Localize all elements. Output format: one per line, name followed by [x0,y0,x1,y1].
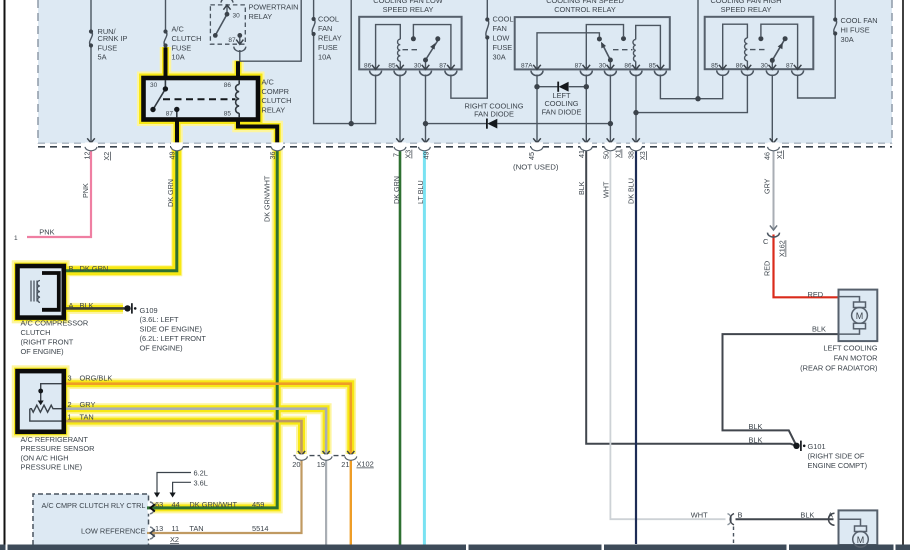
svg-text:CRNK IP: CRNK IP [98,34,128,43]
junction: left diode at control 87 riser [584,84,589,89]
svg-text:COOL: COOL [493,14,514,23]
svg-text:49: 49 [168,152,177,160]
svg-text:BLK: BLK [800,511,814,520]
wire: LS relay pin 87 to cool fan low fuse [451,38,487,99]
wire: powertrain 87 output down and branch right up [239,50,241,61]
thick wire: relay pin 85 output to border at 36 [238,118,277,145]
svg-text:OF ENGINE): OF ENGINE) [21,347,64,356]
highlight glow: relay outputs through border [171,120,183,151]
svg-text:WHT: WHT [691,511,708,520]
thick wire: fuse to A/C compr clutch relay pin 30 [164,48,168,79]
wire LT BLU 49 down to sheet edge [423,148,426,550]
wire: control relay pin 85 to high speed pin 85 [660,75,722,99]
svg-text:1: 1 [68,412,72,421]
svg-text:LOW REFERENCE: LOW REFERENCE [81,526,146,535]
svg-text:RED: RED [763,261,772,276]
svg-text:2: 2 [68,400,72,409]
svg-text:POWERTRAIN: POWERTRAIN [249,3,299,12]
svg-text:DK GRN: DK GRN [392,176,401,204]
svg-text:85: 85 [649,63,657,70]
ECM dashed box (A/C cmpr clutch rly ctrl) [33,494,149,545]
svg-text:BLK: BLK [749,422,763,431]
svg-text:PRESSURE LINE): PRESSURE LINE) [21,462,83,471]
junction: control 86 / high speed 86 link [633,110,638,115]
harness connector 7 X3 [394,142,406,150]
svg-text:63: 63 [155,500,163,509]
left cooling fan motor internals [839,297,868,335]
svg-text:RELAY: RELAY [318,33,342,42]
svg-text:85: 85 [711,63,719,70]
svg-text:X102: X102 [357,460,374,469]
powertrain relay contacts and pins [225,12,230,17]
svg-text:3.6L: 3.6L [194,478,208,487]
wire WHT 50 down and right to connector B [610,148,725,519]
pin numbers A/C compr clutch relay [150,82,231,118]
relay box: cooling fan low speed relay [359,17,461,70]
svg-text:COOL: COOL [318,14,339,23]
fuse A/C CLUTCH 10A [164,32,167,46]
wire DK BLU 38 down to sheet edge [635,148,637,544]
svg-text:TAN: TAN [189,524,203,533]
fuse COOL FAN HI 30A [834,20,837,34]
relay box: cooling fan high speed relay [705,17,814,69]
svg-text:13: 13 [155,524,163,533]
low speed relay internals [376,25,451,70]
svg-text:PNK: PNK [39,228,54,237]
harness connector 12 X2 [85,142,97,150]
svg-text:SPEED RELAY: SPEED RELAY [383,5,434,14]
svg-text:30: 30 [761,63,769,70]
svg-text:DK GRN/WHT: DK GRN/WHT [189,500,237,509]
svg-text:X3: X3 [404,150,413,159]
svg-text:86: 86 [224,82,232,89]
svg-text:OF ENGINE): OF ENGINE) [140,343,183,352]
highlight glow: A/C clutch fuse feed to relay [160,47,172,78]
svg-text:30: 30 [150,82,158,89]
highlight glow: clutch box [18,266,64,318]
X102 connector pin 21 cup [345,454,357,460]
svg-text:FAN MOTOR: FAN MOTOR [834,354,878,363]
svg-text:LEFT COOLING: LEFT COOLING [823,343,877,352]
svg-text:X1: X1 [775,150,784,159]
svg-text:LT BLU: LT BLU [416,180,425,204]
ground G109 [124,305,130,311]
svg-text:5A: 5A [98,53,107,62]
wire: powertrain relay pin30 arrow stem [226,6,228,15]
wire DK GRN 7 X3 down to sheet edge [399,148,402,550]
wire: LS relay pin 85 down to border (DK GRN 7) [399,75,401,143]
fuse RUN/CRNK IP 5A [90,32,93,46]
svg-text:M: M [856,311,864,321]
wire: cool fan low fuse feed [486,0,488,20]
X102 connector pin 19 cup [320,454,332,460]
connector labels at border [83,149,785,160]
svg-text:LOW: LOW [493,34,510,43]
connector A at right fan motor [829,513,835,525]
wire: high speed relay pin 30 down to border (GRY 46) [771,75,773,143]
wire: feed from top to rail junction [350,0,352,124]
svg-text:86: 86 [364,63,372,70]
svg-text:CONTROL RELAY: CONTROL RELAY [554,5,616,14]
svg-text:B: B [69,264,74,273]
wire GRY 46 to connector C X162 [773,148,775,229]
harness connector 38 X3 [630,142,642,150]
A/C compressor clutch bold box [18,266,64,318]
left cooling fan diode [559,82,569,92]
pin numbers low speed relay [364,63,447,70]
relay box: cooling fan speed control relay [515,17,670,69]
svg-text:87: 87 [228,37,236,44]
svg-text:FAN DIODE: FAN DIODE [474,110,514,119]
svg-text:30A: 30A [493,53,506,62]
wire BLK connector B to right fan motor connector A [736,518,834,520]
svg-text:(RIGHT SIDE OF: (RIGHT SIDE OF [808,452,865,461]
wire: control relay pin 87 down to border (BLK 41) [585,75,587,143]
wire GRY below X102 pin 19 [325,459,327,550]
svg-text:DK BLU: DK BLU [627,178,636,204]
svg-text:86: 86 [736,63,744,70]
svg-text:12: 12 [83,152,92,160]
svg-text:(3.6L: LEFT: (3.6L: LEFT [140,315,180,324]
thick wire: powertrain feed to relay pin 86 [236,61,240,78]
powertrain relay dashed box [210,5,245,44]
wire: control relay pin 87A down to 45 (not used) [536,75,538,143]
svg-text:X2: X2 [102,152,111,161]
wire: feed to RUN/CRNK IP fuse [90,0,92,32]
svg-text:A/C COMPRESSOR: A/C COMPRESSOR [21,318,89,327]
svg-text:X162: X162 [778,240,787,257]
svg-text:3: 3 [68,374,72,383]
wire: cool fan relay fuse feed [313,0,315,19]
highlight core strokes (brighter yellow) [162,47,169,78]
svg-text:10A: 10A [318,52,331,61]
svg-text:GRY: GRY [80,400,96,409]
svg-text:41: 41 [577,150,586,158]
junction: control relay pin 30 at diode rail [608,121,613,126]
svg-text:BLK: BLK [80,301,94,310]
relay pin connector cups [370,70,804,75]
svg-text:7: 7 [392,153,401,157]
svg-text:CLUTCH: CLUTCH [21,328,51,337]
svg-text:(RIGHT FRONT: (RIGHT FRONT [21,338,74,347]
wire DK GRN/WHT 36 relay to A/C CMPR CLUTCH RLY CTRL [154,148,277,508]
inline connector B [728,514,732,525]
highlight glow: sensor rows to X102 [64,384,351,454]
junction: left diode at 87A riser [534,84,539,89]
wire: powertrain relay pin 87 stem [239,35,241,43]
wire RED from X162 to left cooling fan motor [774,235,839,298]
svg-text:HI FUSE: HI FUSE [841,26,870,35]
svg-text:RED: RED [808,290,824,299]
svg-text:86: 86 [624,63,632,70]
svg-text:FUSE: FUSE [98,43,118,52]
svg-text:30: 30 [599,63,607,70]
svg-text:21: 21 [341,460,349,469]
harness connector 36 [271,142,283,150]
left cooling fan motor box [839,290,878,342]
svg-text:6.2L: 6.2L [194,469,208,478]
svg-text:30: 30 [233,13,241,20]
6.2L / 3.6L pin pointers [157,473,191,495]
svg-text:459: 459 [252,500,264,509]
X102 connector pin 20 cup [296,454,308,460]
wire TAN sensor pin 1 to X102 pin 20 [64,421,302,454]
svg-text:FUSE: FUSE [493,43,513,52]
pressure sensor internals [30,384,62,421]
pin numbers high speed relay [711,63,794,70]
svg-text:X1: X1 [614,149,623,158]
A/C compressor clutch internals [42,273,59,310]
ECM connector arrows and cups [148,502,155,514]
fuse COOL FAN LOW 30A [486,20,489,38]
wire ORG below X102 pin 21 [350,459,352,550]
svg-text:RELAY: RELAY [262,105,286,114]
svg-text:85: 85 [224,111,232,118]
svg-text:C: C [763,237,769,246]
svg-text:B: B [738,511,743,520]
relay pin arrows at box bottoms [372,65,802,70]
svg-text:FUSE: FUSE [172,43,192,52]
A/C compr clutch relay bold box [144,78,259,120]
wire PNK from connector 12 X2 to splice 1 [27,148,91,237]
wire: rail right segment with right cooling fan diode [426,123,487,125]
svg-text:DK GRN: DK GRN [80,264,109,273]
svg-text:A/C CMPR CLUTCH RLY CTRL: A/C CMPR CLUTCH RLY CTRL [42,501,146,510]
wire: high speed pin 87 to cool fan hi fuse [798,34,836,99]
svg-text:G101: G101 [808,442,826,451]
svg-text:A/C REFRIGERANT: A/C REFRIGERANT [21,435,89,444]
fuse COOL FAN RELAY 10A [312,19,315,34]
svg-text:87: 87 [439,63,447,70]
svg-text:GRY: GRY [763,178,772,194]
svg-text:46: 46 [763,152,772,160]
svg-text:36: 36 [268,152,277,160]
wire: RUN/CRNK fuse to connector 12 X2 [90,46,92,143]
sheet frame line right [902,0,904,545]
sheet frame line left [4,0,6,545]
svg-text:1: 1 [14,235,18,242]
highlight glow: A/C compr clutch relay box [144,78,259,120]
svg-text:87: 87 [786,63,794,70]
border crossing arrows [87,138,777,143]
highlight glow: BLK wire to G109 [64,303,123,314]
wire TAN below X102 pin 20 to LOW REFERENCE row [154,459,302,533]
svg-text:RELAY: RELAY [249,12,273,21]
harness boundary dark dashed line [38,146,892,148]
harness connector 50 X1 [605,142,617,150]
X102 inline connector dashed row [294,455,358,457]
wire colour labels (rotated) [81,175,787,276]
sheet bottom title bar [0,545,910,550]
svg-text:G109: G109 [140,306,158,315]
X102 wire end arrows [298,451,355,456]
svg-text:TAN: TAN [80,412,94,421]
svg-text:A/C: A/C [172,25,185,34]
svg-text:BLK: BLK [577,181,586,195]
svg-text:87A: 87A [521,63,533,70]
wire GRY sensor pin 2 to X102 pin 19 [64,409,326,455]
inline connector C X162 [770,225,777,230]
svg-text:X2: X2 [170,535,179,544]
svg-text:DK GRN/WHT: DK GRN/WHT [263,175,272,222]
svg-text:(6.2L: LEFT FRONT: (6.2L: LEFT FRONT [140,334,207,343]
fuse block dashed border bottom edge [38,142,892,144]
svg-text:30A: 30A [841,35,854,44]
right cooling fan motor box (partial at sheet bottom) [839,510,878,545]
wire: control relay pin 86 down to border (DK BLU 38) [635,75,637,143]
harness connector 49 [171,142,183,150]
svg-text:10A: 10A [172,53,185,62]
wire BLK clutch pin A to G109 [64,307,125,310]
control relay internals [537,25,660,70]
harness connector 49 (LT BLU) [419,142,431,150]
A/C compr clutch relay internals: switch 30-87 and coil 86-85 [153,80,239,117]
svg-text:(ON A/C HIGH: (ON A/C HIGH [21,453,69,462]
wire DK GRN 49 relay to compressor clutch pin B [64,148,177,271]
svg-text:45: 45 [527,152,536,160]
svg-text:CLUTCH: CLUTCH [172,34,202,43]
svg-text:20: 20 [292,460,300,469]
highlight glow: pressure sensor box [18,371,64,432]
A/C refrigerant pressure sensor bold box [18,371,64,432]
underhood fuse block blue box fill [38,0,892,143]
harness connector 46 X1 [768,142,780,150]
harness connector 41 [580,142,592,150]
svg-text:50: 50 [602,151,611,159]
svg-text:X3: X3 [638,151,647,160]
svg-text:44: 44 [172,500,180,509]
thick wire: relay pin 87 output to border [175,120,179,145]
wire: link control 86 to high speed 86 [636,75,747,113]
svg-text:DK GRN: DK GRN [166,179,175,207]
right cooling fan diode [487,119,497,129]
pin numbers powertrain relay [228,13,240,44]
svg-text:ORG/BLK: ORG/BLK [80,374,113,383]
svg-text:ENGINE COMPT): ENGINE COMPT) [808,461,868,470]
wire: control relay pin 30 down to border (WHT 50) [609,75,611,143]
pin numbers control relay [521,63,656,70]
wire: feed from top to 98.7 junction [697,0,699,99]
wire BLK left cooling fan motor to G101 [723,334,839,446]
svg-text:(REAR OF RADIATOR): (REAR OF RADIATOR) [800,363,877,372]
svg-text:A/C: A/C [262,77,275,86]
svg-text:PRESSURE SENSOR: PRESSURE SENSOR [21,444,95,453]
svg-text:FUSE: FUSE [318,43,338,52]
wire: cool fan relay fuse to rail and up to LS relay pin 86 [314,34,376,124]
svg-text:30: 30 [414,63,422,70]
svg-text:COOL FAN: COOL FAN [841,16,878,25]
junction: feed at control/high speed 85 link [695,96,700,101]
svg-text:85: 85 [388,63,396,70]
svg-text:19: 19 [317,460,325,469]
svg-text:FAN DIODE: FAN DIODE [542,107,582,116]
wire: cool fan hi fuse feed [834,0,836,20]
svg-text:SIDE OF ENGINE): SIDE OF ENGINE) [140,325,202,334]
svg-text:38: 38 [627,151,636,159]
wire: feed to A/C clutch fuse [165,0,167,32]
harness connector 45 (not used) [531,142,543,150]
highlight glow: DK GRN/WHT 36 wire to ECM [153,148,277,508]
fuse block dashed border right edge [891,0,893,143]
svg-text:WHT: WHT [602,181,611,198]
svg-text:M: M [857,535,865,545]
svg-text:CLUTCH: CLUTCH [262,96,292,105]
wire: left cooling fan diode row [537,86,558,88]
svg-text:BLK: BLK [749,435,763,444]
highlight glow: DK GRN 49 wire to clutch [64,148,177,271]
svg-text:87: 87 [575,63,583,70]
svg-text:A: A [69,301,74,310]
svg-text:SPEED RELAY: SPEED RELAY [721,5,772,14]
bottom-left ECM blue box fill [33,494,149,545]
svg-text:PNK: PNK [81,183,90,198]
ground G101 [793,443,799,449]
junction: LS relay pin 30 at diode rail [423,121,428,126]
svg-text:FAN: FAN [493,24,507,33]
svg-text:5514: 5514 [252,524,268,533]
svg-text:BLK: BLK [812,325,826,334]
wire: LS relay pin 30 down through rail to border (LT BLU 49) [425,75,427,143]
junction: feed to cool fan relay fuse rail [349,121,354,126]
wire BLK 41 to ground G101 [586,148,796,446]
wire: powertrain relay blade [215,14,227,35]
svg-text:11: 11 [172,524,180,533]
right cooling fan motor internals [839,519,869,547]
wire ORG/BLK sensor pin 3 to X102 pin 21 [64,384,351,455]
high speed relay internals [723,24,798,69]
svg-text:FAN: FAN [318,24,332,33]
svg-text:87: 87 [166,111,174,118]
svg-text:(NOT USED): (NOT USED) [513,162,559,171]
fuse block dashed border left edge [37,0,39,143]
svg-text:49: 49 [422,152,431,160]
svg-text:A: A [828,511,833,520]
svg-text:COMPR: COMPR [262,87,290,96]
